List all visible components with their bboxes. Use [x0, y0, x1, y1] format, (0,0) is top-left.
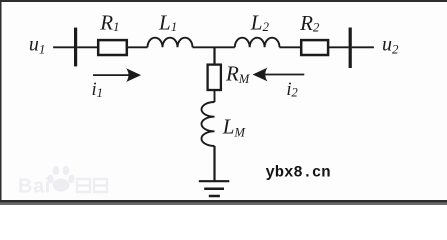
svg-text:Bai: Bai — [18, 176, 51, 198]
svg-text:ybx8.cn: ybx8.cn — [266, 164, 331, 182]
